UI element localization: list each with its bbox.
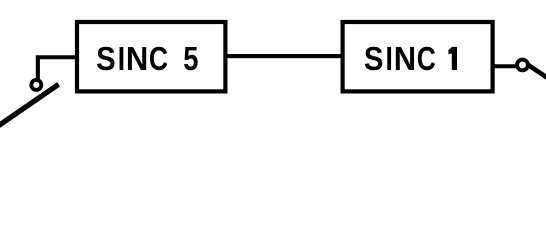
block SINC5 [77, 22, 225, 91]
svg-text:S: S [364, 40, 384, 77]
svg-text:N: N [126, 40, 148, 77]
switch SW2 lever (output, lower-right) [528, 65, 546, 79]
svg-text:C: C [417, 41, 436, 77]
switch SW1 lever (input, lower-left) [0, 84, 59, 129]
svg-text:5: 5 [183, 40, 198, 77]
svg-text:N: N [394, 40, 416, 77]
wire between SINC5 and SINC1 [225, 54, 342, 58]
block SINC1 [343, 22, 493, 91]
svg-text:I: I [386, 41, 393, 78]
switch SW1 contact circle [31, 80, 41, 90]
label SINC1 [364, 40, 457, 78]
svg-text:S: S [96, 40, 116, 77]
wire input riser and stub into SINC5 [38, 57, 77, 79]
svg-text:I: I [118, 41, 125, 78]
svg-text:C: C [149, 41, 168, 77]
label SINC5 [96, 40, 198, 78]
switch SW2 contact circle [517, 60, 528, 71]
wire output stub from SINC1 [493, 64, 516, 68]
